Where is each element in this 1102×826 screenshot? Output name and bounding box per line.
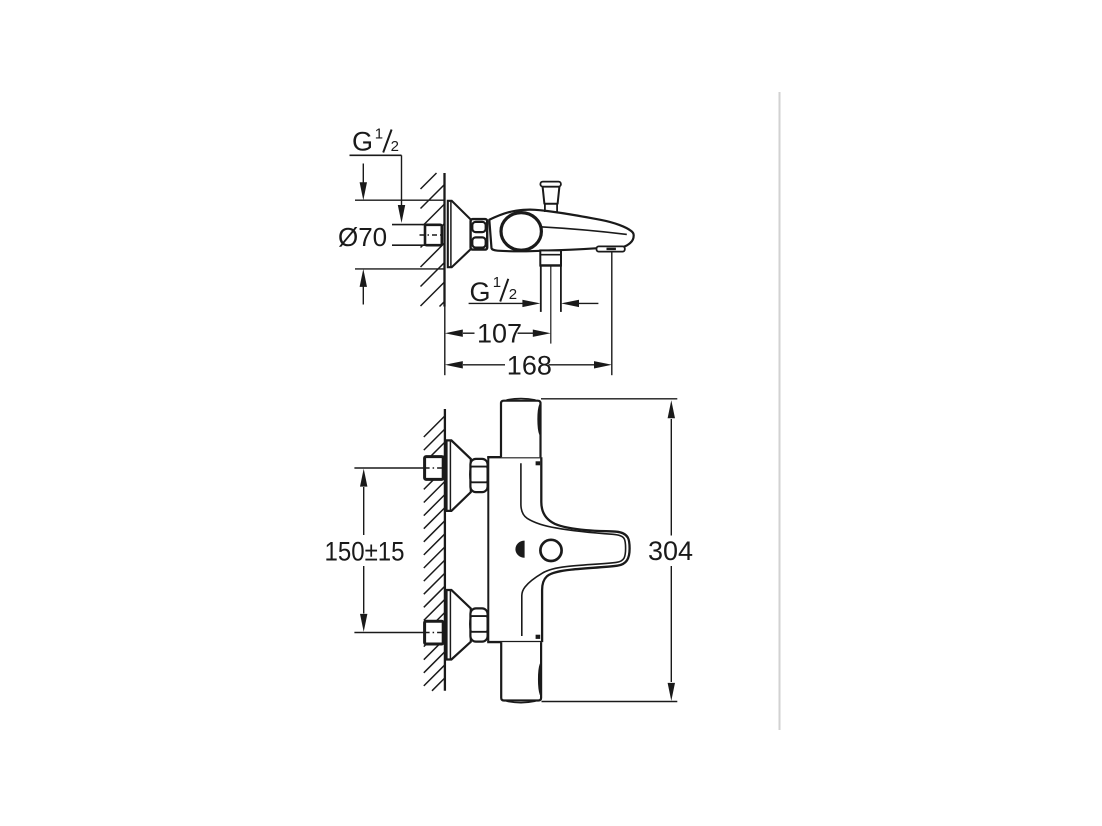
inlet pipe (top view) bbox=[392, 225, 425, 244]
square wall fitting (top view) bbox=[425, 225, 442, 245]
168 dimension line bbox=[445, 361, 463, 368]
aerator bbox=[597, 246, 625, 251]
escutcheon cone bottom inlet bbox=[447, 590, 471, 660]
half-moon mark bbox=[515, 541, 524, 558]
107 dimension line bbox=[445, 330, 463, 337]
svg-text:1: 1 bbox=[375, 126, 383, 143]
bottom cylinder (bottom view) bbox=[501, 642, 541, 700]
O70 extension lines bbox=[355, 199, 444, 201]
hex nut top inlet bbox=[470, 459, 487, 492]
inner body line (bottom view) bbox=[521, 463, 626, 636]
svg-text:2: 2 bbox=[509, 286, 517, 303]
pin bump bottom cylinder bbox=[539, 664, 541, 695]
wall hatching (top view) bbox=[421, 173, 445, 307]
O70 dimension arrows bbox=[362, 164, 364, 184]
hex nut (top view) bbox=[471, 219, 488, 250]
detail square bottom bbox=[536, 635, 541, 639]
detail square top bbox=[536, 461, 541, 465]
304 bottom extension bbox=[542, 701, 678, 703]
body outline S-curve (bottom view) bbox=[541, 457, 629, 642]
svg-text:Ø70: Ø70 bbox=[338, 222, 387, 252]
outlet circle bbox=[540, 540, 561, 561]
escutcheon cone top inlet bbox=[447, 440, 471, 511]
bottom shelf line bbox=[487, 641, 541, 643]
svg-text:304: 304 bbox=[648, 536, 693, 566]
304 dimension line bbox=[670, 419, 672, 536]
hose centerline bbox=[550, 266, 552, 344]
right extension line (168) bbox=[611, 253, 613, 376]
spout edge line (top view) bbox=[541, 227, 627, 235]
top cylinder (bottom view) bbox=[501, 401, 541, 458]
pin bump top cylinder bbox=[539, 405, 541, 434]
svg-text:2: 2 bbox=[391, 138, 399, 155]
svg-text:107: 107 bbox=[477, 319, 522, 349]
diverter knob bbox=[543, 187, 560, 204]
304 top extension bbox=[541, 398, 677, 400]
faucet body (top view) bbox=[489, 210, 633, 252]
svg-text:G: G bbox=[470, 277, 491, 307]
body block left edge bbox=[487, 457, 489, 642]
escutcheon cone (top view) bbox=[448, 201, 471, 267]
hose connector (top view) bbox=[540, 250, 561, 265]
leader G 1/2 (top) bbox=[350, 154, 402, 156]
hose pipe (top view) bbox=[540, 266, 542, 312]
centerline bottom inlet bbox=[354, 632, 424, 634]
top shelf line bbox=[487, 456, 541, 458]
square fitting bottom inlet bbox=[425, 621, 444, 644]
centerline top inlet bbox=[354, 467, 424, 469]
wall line (bottom view) bbox=[444, 409, 446, 691]
handle circle (top view) bbox=[501, 213, 541, 251]
svg-text:1: 1 bbox=[493, 274, 501, 291]
hex nut bottom inlet bbox=[470, 608, 487, 641]
left extension line bbox=[444, 307, 446, 376]
svg-text:150±15: 150±15 bbox=[325, 536, 405, 566]
G 1/2 dimension arrows bbox=[469, 302, 523, 304]
square fitting top inlet bbox=[425, 457, 444, 480]
svg-text:168: 168 bbox=[507, 350, 552, 380]
wall hatching (bottom view) bbox=[424, 416, 445, 691]
wall line (top view) bbox=[443, 173, 445, 307]
150±15 dimension line bbox=[363, 487, 365, 535]
centerline dash (top view fitting) bbox=[420, 234, 444, 236]
svg-text:G: G bbox=[352, 127, 373, 157]
